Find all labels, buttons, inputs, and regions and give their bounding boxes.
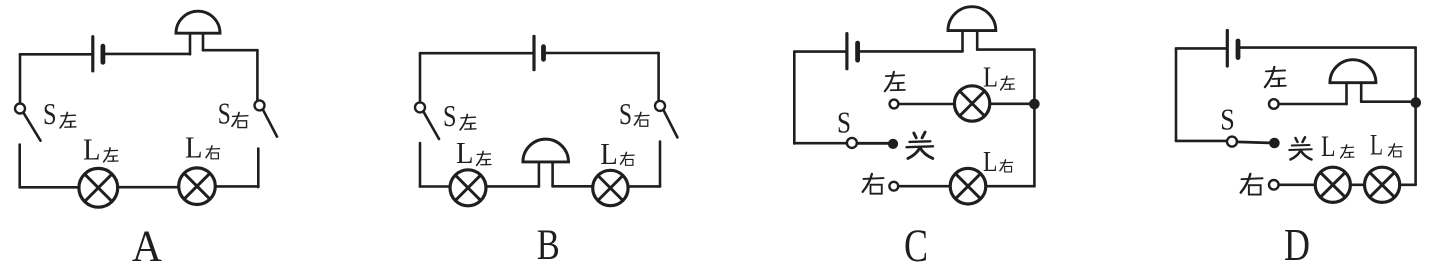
label L右 (circuit B) (600, 136, 634, 171)
label L左 (circuit D) (1321, 130, 1354, 163)
switch S left (circuit A) (15, 104, 41, 141)
label S右 (circuit A) (218, 95, 248, 130)
switch S common terminal (circuit C) (847, 138, 857, 148)
wire B lamp-left to bell (486, 185, 539, 188)
label L右 (circuit A) (185, 130, 220, 165)
lamp L right (circuit B) (593, 170, 628, 205)
bell HA (circuit D) (1330, 60, 1376, 104)
wire B right vertical upper (657, 53, 660, 101)
wire B top-right (544, 52, 659, 55)
wire C 右-row to lamp (898, 185, 950, 188)
svg-text:D: D (1284, 220, 1310, 263)
switch S left (circuit B) (415, 102, 439, 139)
node 右 terminal (circuit C) (889, 182, 898, 191)
junction dot on right vertical (circuit D) (1411, 98, 1421, 108)
wire D top-right (1238, 46, 1416, 49)
svg-text:L: L (1321, 130, 1336, 163)
svg-text:S: S (218, 95, 231, 130)
lamp L right (circuit A) (179, 168, 216, 205)
node 左 terminal (circuit D) (1269, 99, 1279, 109)
wire C left vertical (793, 52, 796, 144)
wire B left vertical lower (419, 143, 422, 187)
wire B bottom-left (420, 185, 450, 188)
svg-text:S: S (1220, 102, 1235, 137)
svg-text:L: L (456, 135, 474, 170)
label L左 (circuit C) (983, 63, 1015, 94)
wire D right vertical (1414, 48, 1417, 185)
wire D 左-row to bell (1279, 103, 1347, 106)
label S右 (circuit B) (619, 96, 649, 131)
wire C lamp L左 to right vertical (990, 103, 1035, 106)
wire C left to switch (794, 142, 847, 145)
svg-text:A: A (132, 222, 162, 263)
svg-text:S: S (43, 96, 57, 131)
bell HA (circuit A) (176, 11, 220, 54)
svg-text:C: C (904, 220, 928, 263)
wire A right vertical upper (256, 50, 259, 100)
svg-text:L: L (1370, 129, 1383, 162)
wire B bell to lamp-right (553, 185, 593, 188)
wire A left vertical upper (19, 54, 22, 103)
svg-text:S: S (837, 105, 851, 140)
switch S common terminal (circuit D) (1227, 137, 1237, 147)
wire A bottom-right (215, 185, 258, 188)
wire D bell to right vertical (1361, 100, 1415, 103)
svg-text:L: L (83, 131, 101, 166)
svg-text:L: L (600, 136, 618, 171)
wire C top-left (794, 50, 845, 53)
junction dot on right vertical (circuit C) (1030, 99, 1040, 109)
svg-text:L: L (185, 130, 203, 165)
wire D between lamps (1350, 184, 1364, 187)
wire B right vertical lower (659, 142, 662, 187)
wire C right vertical (1033, 50, 1036, 187)
lamp L右 (circuit D) (1365, 167, 1400, 202)
label L左 (circuit B) (456, 135, 491, 170)
label S左 (circuit B) (443, 98, 476, 133)
wire C battery to bell (858, 50, 963, 53)
lamp L left (circuit B) (450, 170, 486, 206)
switch blade S to 关 (circuit D) (1237, 142, 1269, 143)
wire A right vertical lower (257, 149, 260, 188)
label L右 (circuit C) (983, 147, 1013, 178)
battery BT (circuit D) (1227, 31, 1238, 67)
switch S right (circuit B) (655, 101, 677, 137)
wire D left to switch (1176, 140, 1227, 143)
bell HA (circuit B) (523, 139, 569, 186)
wire C lamp L右 to right vertical (986, 185, 1035, 188)
wire C 左-row to lamp (898, 103, 954, 106)
svg-text:L: L (983, 147, 998, 178)
label L左 (circuit A) (83, 131, 118, 166)
svg-text:S: S (619, 96, 632, 131)
wire A top-left (20, 53, 92, 56)
label 左 row (circuit C) (885, 72, 905, 91)
wire A left vertical lower (18, 145, 21, 188)
bell HA (circuit C) (948, 7, 996, 52)
label 右 row (circuit D) (1241, 174, 1263, 195)
battery BT (circuit C) (847, 34, 858, 69)
wire B left vertical upper (419, 53, 422, 102)
wire D left vertical (1175, 48, 1178, 140)
svg-text:L: L (983, 63, 998, 94)
wire A between lamps (118, 186, 179, 189)
lamp L左 (circuit C) (954, 86, 989, 121)
svg-text:B: B (537, 222, 560, 263)
wire B top-left (420, 52, 533, 55)
wire C bell to top-right corner (977, 48, 1034, 51)
lamp L右 (circuit C) (950, 168, 986, 204)
switch blade S to 关 (circuit C) (857, 142, 889, 145)
label L右 (circuit D) (1370, 129, 1402, 162)
label 关 (circuit D) (1289, 137, 1312, 159)
node 右 terminal (circuit D) (1269, 180, 1279, 190)
battery BT (circuit A) (93, 37, 103, 71)
lamp L左 (circuit D) (1315, 167, 1350, 202)
svg-text:S: S (443, 98, 457, 133)
wire B bottom-right (628, 185, 660, 188)
wire D top-left (1176, 47, 1226, 50)
label 左 row (circuit D) (1265, 67, 1286, 87)
node 关 contact dot (circuit C) (888, 139, 897, 148)
wire A battery to bell (103, 53, 190, 56)
wire D lamp L右 to right vertical (1400, 184, 1416, 187)
label S左 (circuit A) (43, 96, 76, 131)
wire A bottom-left (20, 186, 79, 189)
lamp L left (circuit A) (79, 168, 118, 207)
node 左 terminal (circuit C) (890, 100, 899, 109)
battery BT (circuit B) (534, 36, 544, 69)
label 关 (circuit C) (906, 132, 933, 158)
switch S right (circuit A) (255, 100, 278, 136)
label 右 row (circuit C) (863, 174, 884, 194)
node 关 contact dot (circuit D) (1270, 138, 1280, 148)
wire D 右-row to lamp L左 (1279, 184, 1316, 187)
wire A bell to top-right corner (203, 49, 257, 52)
